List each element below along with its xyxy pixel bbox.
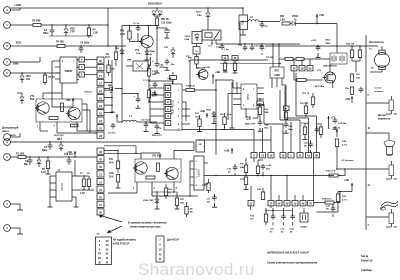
wire (285, 103, 287, 106)
svg-text:Р4 20К: Р4 20К (56, 41, 64, 44)
svg-text:+5В: +5В (344, 178, 349, 182)
svg-text:+5В: +5В (66, 98, 71, 102)
wire (117, 151, 119, 156)
resistor R4 20K (57, 45, 65, 48)
svg-text:1ОМК2: 1ОМК2 (300, 227, 308, 229)
transistor VT6 mosfet (325, 72, 336, 83)
wire (228, 93, 233, 95)
wire (85, 59, 98, 61)
wire (279, 90, 281, 120)
wire row1 risers (253, 130, 255, 153)
resistor R40c (261, 192, 264, 200)
node box Ok (193, 47, 200, 55)
svg-text:3Ор: 3Ор (136, 53, 141, 55)
capacitor C3 (49, 142, 51, 145)
zener VD2 (65, 25, 67, 29)
svg-text:VD13: VD13 (196, 12, 202, 14)
resistor R3 24R (33, 24, 41, 27)
wire (270, 206, 272, 208)
svg-text:24С02: 24С02 (60, 183, 64, 191)
svg-text:68н: 68н (24, 164, 29, 166)
relay K1 contact (202, 30, 221, 40)
svg-text:ВСУ1Вф: ВСУ1Вф (315, 85, 324, 88)
wire (263, 105, 265, 125)
wire U7 left pins (233, 87, 241, 89)
svg-text:20 К: 20 К (109, 176, 114, 178)
pin box 2 (79, 72, 85, 77)
svg-text:1О: 1О (158, 249, 161, 251)
resistor R47 (176, 195, 178, 198)
resistor R48b 2K (196, 54, 198, 57)
capacitor C11 (251, 45, 253, 47)
ground bus (49, 35, 93, 37)
capacitor C27 (310, 142, 312, 144)
wire rail y44 (216, 43, 300, 45)
node NC box 1 (96, 237, 112, 265)
svg-text:ВВ3б УНР: ВВ3б УНР (245, 123, 256, 126)
wire (136, 190, 138, 193)
svg-text:Для Ю5.Р: Для Ю5.Р (167, 239, 179, 242)
transistor VT1.1 (37, 102, 49, 114)
svg-text:Вх2: Вх2 (30, 98, 35, 101)
wire (295, 73, 297, 116)
svg-text:С6 73мФ: С6 73мФ (141, 118, 150, 121)
transistor module U2 box (36, 99, 82, 122)
node annotation arrows (99, 215, 122, 222)
svg-text:7О: 7О (98, 254, 101, 256)
op-amp U1 54BZU (60, 57, 77, 83)
svg-text:Р42 5О К: Р42 5О К (326, 170, 336, 173)
svg-text:Нб2: Нб2 (240, 20, 244, 25)
wire right bus (365, 35, 367, 230)
capacitor C6 73m (145, 122, 147, 124)
capacitor C20b (316, 127, 318, 129)
capacitor C13 (244, 45, 246, 47)
resistor R8 4,7K (88, 176, 90, 179)
wire ic pins left (50, 175, 56, 177)
resistor R20 (207, 183, 210, 191)
resistor R62 (297, 79, 306, 82)
wire (121, 26, 123, 123)
wire (107, 8, 109, 46)
power +5V (116, 114, 118, 122)
zener VD5 (38, 157, 40, 160)
wire (39, 128, 41, 131)
svg-text:1,2В: 1,2В (93, 32, 98, 35)
resistor R7 (44, 73, 46, 75)
connector X1 pin 2 (4, 59, 11, 66)
wire (336, 24, 338, 47)
svg-text:Elans115: Elans115 (361, 259, 373, 263)
wire (111, 60, 113, 113)
capacitor C46b (285, 122, 287, 124)
resistor R2 10R (18, 156, 26, 159)
svg-text:4,7 К: 4,7 К (342, 143, 348, 146)
wire (126, 65, 133, 67)
wire strip right taps (104, 82, 112, 84)
resistor R67 10B (350, 74, 353, 82)
svg-text:ВМ2К: ВМ2К (10, 135, 16, 137)
wire (207, 8, 209, 13)
resistor R29 10B (350, 87, 353, 95)
terminal row upper (251, 153, 257, 158)
svg-text:1ВВ: 1ВВ (265, 112, 270, 114)
svg-text:Р1О: Р1О (109, 173, 114, 175)
connector X1 pin 8 (4, 43, 11, 50)
resistor R66 17K (359, 46, 361, 50)
capacitor C29 47n (68, 157, 70, 160)
node NC box 2 (156, 236, 164, 262)
wire y59 (285, 58, 293, 61)
crystal ZQ1 10MHz (300, 213, 308, 222)
svg-text:49 К: 49 К (109, 161, 114, 164)
zener VD7 (21, 93, 23, 97)
svg-text:2С: 2С (294, 19, 297, 21)
terminal row lower (268, 201, 274, 206)
svg-text:2ОО: 2ОО (120, 34, 125, 36)
svg-text:РЗЗ: РЗЗ (164, 47, 169, 49)
resistor R7b 4,7K (83, 176, 85, 179)
svg-text:23А: 23А (26, 78, 31, 81)
mosfet pair inside (331, 56, 333, 61)
wire (141, 121, 146, 123)
power +5V s2 (351, 183, 353, 190)
op-amp U8 BTS412B (270, 67, 284, 78)
svg-text:24В: 24В (240, 166, 244, 169)
wire (42, 93, 44, 99)
svg-text:Схема электрическая принципиал: Схема электрическая принципиальная (267, 261, 318, 265)
op-amp U6 TLE4203 (164, 84, 182, 130)
svg-text:t°C: t°C (394, 113, 398, 116)
svg-text:КСО: КСО (16, 42, 21, 45)
svg-text:+ОВ: +ОВ (200, 109, 206, 113)
resistor inside module2 (146, 176, 155, 179)
capacitor C32 (261, 22, 263, 24)
svg-text:+5В: +5В (319, 13, 324, 17)
wire (366, 132, 389, 134)
transistor VT7 (198, 70, 208, 80)
wire (149, 80, 173, 82)
resistor R10 20K (116, 175, 119, 183)
wire (262, 172, 264, 176)
svg-text:49-К: 49-К (152, 95, 157, 98)
svg-text:момеп микропроцессора: момеп микропроцессора (130, 226, 161, 229)
svg-text:+12В: +12В (14, 3, 21, 7)
svg-text:VD14: VD14 (185, 35, 191, 38)
svg-text:С44 1Мк: С44 1Мк (338, 122, 347, 125)
svg-text:ВН: ВН (258, 103, 262, 105)
svg-text:4,7К: 4,7К (80, 192, 85, 195)
svg-text:НВ8: НВ8 (127, 59, 132, 61)
power +OB small (206, 113, 208, 118)
svg-text:1,9К: 1,9К (280, 19, 285, 21)
capacitor C17 1n (137, 26, 139, 28)
wire (250, 186, 252, 201)
wire (10, 45, 25, 47)
wire (80, 175, 89, 177)
zener VD13 (206, 13, 210, 16)
resistor R33a (223, 63, 226, 71)
wire (10, 156, 18, 158)
wire U7 right pins (257, 87, 264, 89)
svg-text:680н: 680н (42, 150, 48, 152)
resistor R36 1,9K (282, 22, 290, 25)
svg-text:СЗ-67н: СЗ-67н (108, 132, 116, 134)
connector X1 pin 4b (4, 139, 11, 146)
svg-text:1В: 1В (300, 68, 303, 71)
connector X1 pin 5 (4, 70, 11, 77)
wire (76, 128, 78, 131)
sensor icon wavy (381, 201, 398, 206)
wire (153, 14, 155, 16)
capacitor C18 (221, 44, 223, 46)
resistor R15 39K (107, 65, 110, 73)
svg-text:УТ2: УТ2 (135, 50, 140, 52)
svg-text:Р4О: Р4О (257, 188, 262, 191)
svg-text:54ВЗУ: 54ВЗУ (65, 69, 73, 73)
svg-text:29К: 29К (152, 74, 156, 76)
wire bus row2 bottom (250, 206, 252, 210)
svg-text:1Б: 1Б (371, 68, 374, 70)
wire module2 pins (136, 182, 138, 190)
resistor R22 (311, 97, 314, 105)
svg-text:Р65 1В: Р65 1В (161, 19, 169, 21)
svg-text:t°C: t°C (394, 226, 398, 229)
pin box 3 (79, 65, 85, 70)
wire (253, 158, 255, 162)
op-amp U3 24C02 (56, 172, 72, 201)
svg-text:В прямоугольниках обозначена: В прямоугольниках обозначена (128, 222, 167, 225)
svg-text:Р.АВ: Р.АВ (185, 38, 190, 41)
resistor R49 (185, 207, 188, 215)
resistor R5 1,2R (88, 25, 90, 28)
wire (336, 46, 338, 53)
zener VD41 (212, 113, 216, 116)
wire (94, 132, 97, 134)
svg-text:Р43: Р43 (120, 30, 125, 33)
svg-text:М Б: М Б (180, 202, 184, 204)
thermistor RK2 (389, 165, 394, 176)
wire (173, 151, 175, 160)
svg-text:С16 220м: С16 220м (161, 22, 172, 24)
capacitor C47 56m (262, 164, 264, 166)
node box BH7 (257, 101, 264, 106)
svg-text:1О: 1О (105, 245, 108, 247)
wire TLE right pins (182, 89, 186, 91)
resistor R23 (319, 127, 322, 135)
svg-text:ОФн: ОФн (13, 63, 19, 66)
svg-text:VD42 СВР: VD42 СВР (143, 199, 154, 202)
wire module pins (39, 122, 41, 128)
wire (10, 61, 40, 63)
svg-text:УВх9: УВх9 (325, 40, 331, 42)
wire bus y63.5 (220, 63, 280, 65)
connector X1 pin 3 (4, 7, 11, 14)
ground (145, 129, 147, 132)
capacitor C19 (283, 214, 285, 216)
power +5V right (316, 14, 318, 24)
svg-text:УВЗО: УВЗО (292, 16, 298, 18)
mosfet block VNB14 (330, 53, 347, 64)
svg-text:+С33: +С33 (311, 40, 317, 42)
wire (10, 72, 60, 74)
resistor R65 1R (155, 18, 158, 26)
svg-text:Вбм: Вбм (265, 126, 270, 129)
svg-text:влажности: влажности (378, 118, 391, 120)
zener VD6 (21, 73, 23, 76)
transistor VT1.2 (68, 107, 80, 119)
wire (284, 86, 286, 118)
resistor R40 4,7K (336, 129, 338, 137)
diode VD8 (60, 142, 62, 145)
wire (56, 128, 58, 133)
svg-text:Р3 24В: Р3 24В (32, 20, 41, 23)
node box In+ (284, 106, 290, 111)
thermistor RK1 (389, 100, 394, 111)
capacitor C16 (157, 27, 167, 29)
capacitor C5 67n (112, 123, 114, 125)
zener VD44 VD45 (146, 48, 148, 51)
zener VD9 (120, 50, 124, 53)
svg-text:4,7 К: 4,7 К (342, 198, 348, 201)
diode VD34 (245, 108, 247, 118)
resistor R42 50K (329, 174, 338, 177)
wire (151, 190, 153, 196)
wire bus y210 (266, 210, 293, 212)
power +5V (72, 98, 74, 107)
resistor R40b (335, 139, 338, 147)
wire (270, 176, 272, 196)
wire (156, 8, 158, 11)
svg-text:Вентилятор: Вентилятор (369, 41, 384, 44)
resistor R11 49K (116, 161, 119, 169)
op-amp U7 BP50 (241, 84, 257, 109)
svg-text:Не задействованы: Не задействованы (113, 239, 136, 242)
svg-text:+5Б: +5Б (110, 110, 115, 114)
sensor icon cup (384, 141, 395, 148)
svg-text:+9В: +9В (215, 70, 220, 74)
svg-text:С4 100н: С4 100н (80, 42, 90, 45)
wire (329, 64, 331, 72)
svg-text:3,7К: 3,7К (41, 172, 46, 174)
svg-text:VD6: VD6 (26, 76, 31, 78)
ground (117, 185, 119, 188)
wire bus y175.5 (204, 175, 334, 177)
wire h140 (198, 139, 271, 141)
resistor R29 10B (186, 89, 195, 92)
capacitor C12 (261, 45, 263, 47)
wire (173, 190, 175, 192)
wire (88, 188, 90, 190)
svg-text:УВ50: УВ50 (246, 93, 250, 100)
capacitor C44b (334, 118, 336, 120)
svg-text:БТС: БТС (275, 69, 280, 72)
svg-text:+5В: +5В (345, 97, 350, 101)
svg-text:ЬВ2К1: ЬВ2К1 (196, 169, 200, 177)
wire (148, 26, 150, 37)
svg-text:Р64 17К: Р64 17К (346, 42, 355, 45)
resistor R6 3,7K (47, 157, 49, 161)
wire (231, 82, 233, 126)
power +5V eeprom (74, 151, 76, 157)
resistor R9 40K (114, 52, 117, 60)
svg-text:t°C: t°C (394, 178, 398, 181)
resistor R44 50K (325, 201, 334, 204)
svg-text:СВ47: СВ47 (325, 42, 331, 45)
svg-text:С29 47п: С29 47п (84, 91, 93, 94)
capacitor C26 (332, 206, 334, 208)
node +12V supply rail (11, 7, 244, 9)
svg-text:РУЗ 7К: РУЗ 7К (302, 93, 310, 95)
svg-text:+С47: +С47 (266, 164, 272, 167)
op-amp U9 (194, 156, 204, 190)
resistor inside module2 (157, 163, 160, 172)
capacitor C44 (360, 87, 362, 89)
svg-text:Р2О: Р2О (202, 185, 206, 187)
wire (215, 40, 217, 44)
svg-text:5б: 5б (309, 68, 312, 71)
resistor R30b (285, 111, 287, 113)
wire rail y46 right (265, 45, 378, 47)
diode VD30 (290, 23, 292, 25)
wire (366, 102, 389, 104)
wire row2 risers (270, 195, 272, 201)
svg-text:412Б: 412Б (274, 74, 280, 77)
wire (65, 45, 108, 47)
resistor R39 (164, 188, 167, 196)
wire (26, 156, 56, 158)
power +OB bottom (231, 148, 233, 154)
wire (140, 153, 142, 159)
transistor VT4.2 (166, 167, 178, 179)
connector pump (4, 134, 11, 141)
resistor R14 29K (148, 64, 150, 69)
svg-text:+ОВ: +ОВ (224, 149, 230, 153)
wire (352, 60, 360, 62)
svg-text:Р36: Р36 (280, 16, 285, 18)
transistor module U5 box (135, 159, 181, 182)
resistor R43 200R (129, 26, 131, 32)
svg-text:VTх Вх2: VTх Вх2 (152, 155, 162, 158)
svg-text:+5В: +5В (67, 150, 72, 154)
wire (355, 61, 357, 72)
transistor VT4.1 (135, 162, 147, 174)
svg-text:24ОВм: 24ОВм (160, 66, 167, 69)
wire U8 pins (271, 78, 273, 88)
power +5V s1 (351, 96, 353, 103)
svg-text:2О: 2О (98, 258, 101, 260)
resistor R35 (256, 166, 259, 174)
terminal box 41 (222, 56, 228, 61)
pin boxes TLE left (165, 86, 171, 91)
capacitor C10 (122, 93, 138, 95)
resistor R45 49K (147, 90, 150, 98)
svg-text:Р37 2В: Р37 2В (266, 57, 273, 59)
resistor R13 2M (303, 127, 306, 135)
svg-text:VD44: VD44 (150, 50, 156, 53)
wire (240, 21, 248, 23)
wire (337, 168, 366, 170)
svg-text:Р44 5О-К: Р44 5О-К (322, 197, 332, 200)
svg-text:ВВ4: ВВ4 (57, 138, 62, 141)
wire (172, 79, 174, 84)
capacitor C2 68n (29, 157, 31, 160)
pin box 4 (79, 57, 85, 62)
svg-text:+ОВ: +ОВ (167, 78, 172, 80)
svg-text:40 К: 40 К (105, 56, 110, 59)
capacitor C46 240 (156, 61, 158, 63)
inductor L1 (123, 120, 126, 122)
